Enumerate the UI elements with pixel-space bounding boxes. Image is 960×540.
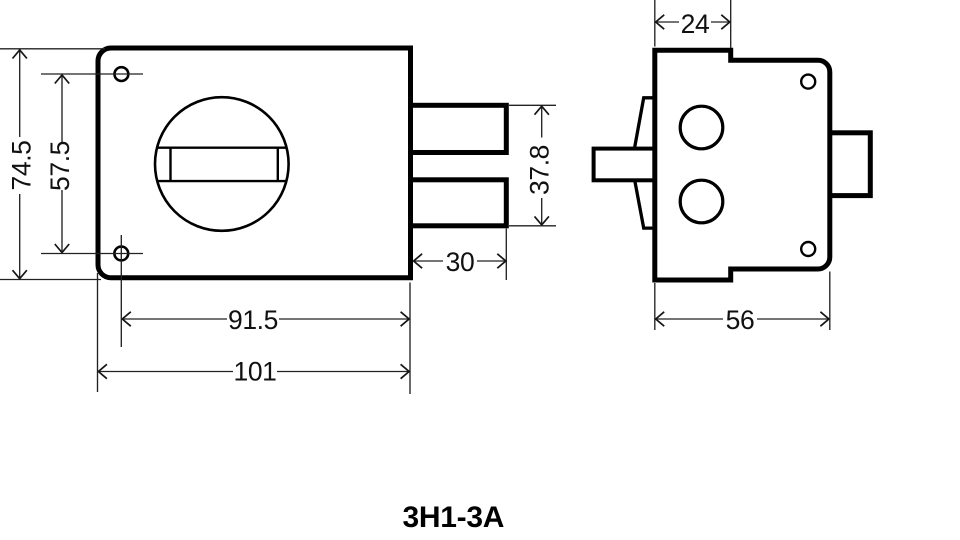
extension line side body left bottom (56)	[654, 283, 656, 330]
svg-text:3H1-3A: 3H1-3A	[403, 501, 505, 534]
side top screw hole	[801, 75, 815, 89]
extension line bolt top (37.8)	[509, 104, 556, 106]
upper cylinder hole	[680, 106, 723, 149]
svg-text:57.5: 57.5	[45, 141, 75, 191]
top screw hole	[115, 67, 129, 81]
svg-text:24: 24	[681, 9, 710, 39]
lock body front view	[98, 48, 411, 278]
extension line through bottom screw hole	[41, 253, 143, 255]
svg-text:37.8: 37.8	[524, 145, 554, 195]
svg-text:56: 56	[726, 305, 755, 335]
side bolt tab	[594, 149, 656, 181]
dimension line 30	[414, 260, 443, 262]
extension line side body right (56)	[829, 272, 831, 331]
extension line side body left top (24)	[654, 0, 656, 47]
extension line below screw hole (91.5)	[120, 235, 122, 347]
lower cylinder hole	[680, 180, 723, 223]
extension line bolt end (30)	[505, 229, 507, 281]
bolt flange side view	[635, 98, 656, 228]
rear tab	[828, 133, 870, 196]
dimension line 91.5	[122, 318, 227, 320]
bottom screw hole	[114, 247, 128, 261]
extension line body top	[0, 48, 105, 50]
extension line through top screw hole	[41, 73, 143, 75]
knob slot upper chord	[157, 146, 286, 148]
extension line body bottom	[0, 279, 101, 281]
side bottom screw hole	[801, 242, 815, 256]
extension line side step (24)	[730, 0, 732, 48]
dimension line 57.5	[61, 75, 63, 142]
knob slot left vertical	[169, 148, 171, 181]
svg-text:91.5: 91.5	[228, 305, 278, 335]
dimension line 24	[656, 21, 679, 23]
upper bolt tab	[411, 105, 507, 152]
dimension line 56	[656, 318, 723, 320]
extension line bolt bottom (37.8)	[509, 225, 556, 227]
lock body side view	[655, 50, 830, 280]
extension line body right (91.5/101)	[409, 283, 411, 395]
knob slot right vertical	[277, 148, 279, 181]
lower bolt tab	[411, 180, 507, 226]
svg-text:101: 101	[233, 357, 276, 387]
svg-text:74.5: 74.5	[6, 141, 36, 191]
extension line body left (101)	[97, 273, 99, 392]
knob slot lower chord	[157, 180, 286, 182]
dimension line 37.8	[541, 106, 543, 137]
thumb-turn knob circle	[155, 97, 289, 231]
svg-text:30: 30	[446, 247, 475, 277]
dimension line 74.5	[19, 50, 21, 137]
dimension line 101	[98, 371, 233, 373]
